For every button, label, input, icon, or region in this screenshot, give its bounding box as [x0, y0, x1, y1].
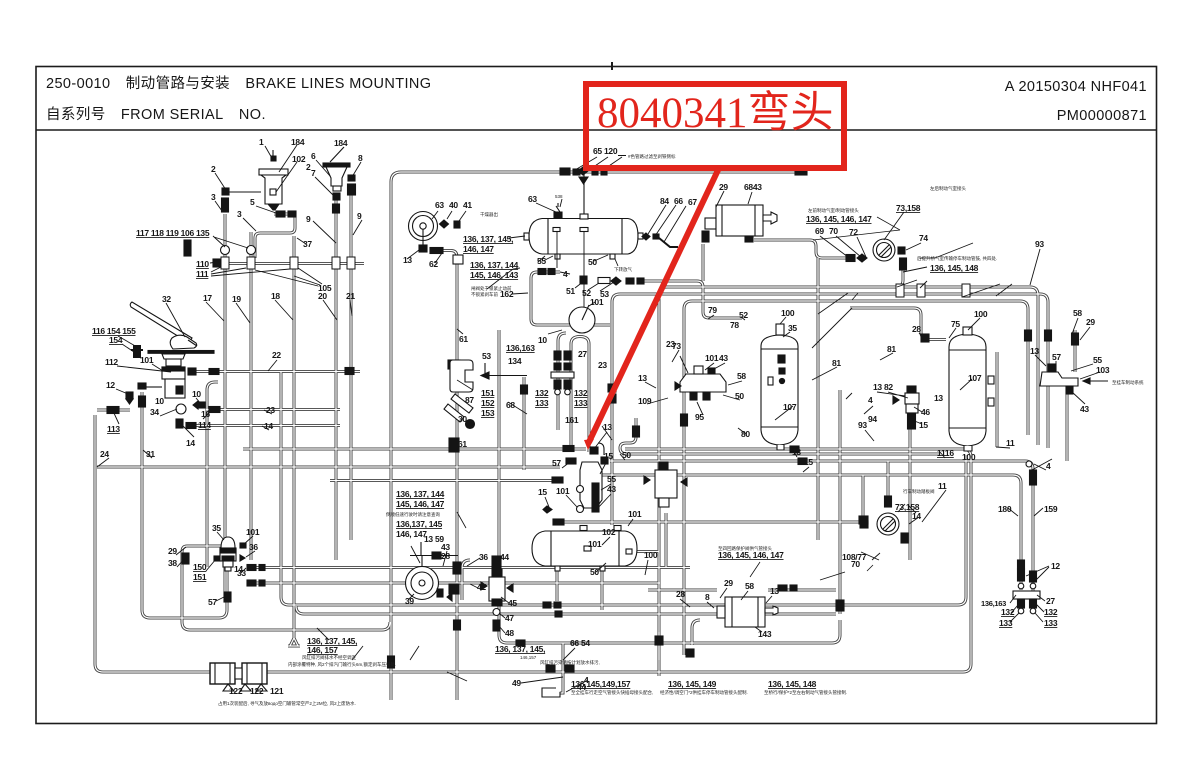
svg-text:19: 19	[232, 294, 241, 304]
junction fittings bottom right 12 27	[1013, 569, 1040, 614]
black bar below 117-135 label	[184, 240, 191, 256]
svg-text:133: 133	[574, 398, 588, 408]
svg-text:63: 63	[435, 200, 444, 210]
bus collars	[221, 257, 355, 269]
svg-text:122: 122	[250, 686, 264, 696]
svg-text:内部涂覆特种, 风2个排汽门输行头6m,额定刹车压强处.: 内部涂覆特种, 风2个排汽门输行头6m,额定刹车压强处.	[288, 661, 396, 668]
L-foot drain bottom center	[542, 688, 560, 697]
fitting on 28 pipe	[921, 334, 929, 342]
safety valve 63 on tank	[554, 203, 562, 218]
svg-text:29: 29	[168, 546, 177, 556]
air filter funnel 1	[259, 150, 288, 210]
drain fitting row 51 52 53	[580, 276, 644, 285]
svg-text:132: 132	[1001, 607, 1015, 617]
svg-text:72: 72	[849, 227, 858, 237]
svg-text:4: 4	[563, 269, 568, 279]
svg-text:109: 109	[638, 396, 652, 406]
svg-text:12: 12	[1051, 561, 1060, 571]
svg-text:68: 68	[506, 400, 515, 410]
svg-text:风缸排污染请按计划放水排污,: 风缸排污染请按计划放水排污,	[540, 659, 600, 666]
svg-text:100: 100	[781, 308, 795, 318]
valve 46 mid	[644, 462, 687, 507]
svg-text:13: 13	[770, 586, 779, 596]
collar above gauge77	[885, 496, 892, 507]
svg-text:136, 137, 144: 136, 137, 144	[396, 489, 445, 499]
svg-text:100: 100	[962, 452, 976, 462]
svg-text:120: 120	[604, 146, 618, 156]
fitting row above tank y170	[560, 167, 607, 184]
fitting 7	[333, 193, 340, 200]
svg-text:经济性/调空门*2供挂车停车制动管接头配制.: 经济性/调空门*2供挂车停车制动管接头配制.	[660, 689, 748, 696]
svg-text:82: 82	[884, 382, 893, 392]
svg-text:风缸排污阀排水不经空调连: 风缸排污阀排水不经空调连	[302, 654, 356, 661]
svg-text:162: 162	[500, 289, 514, 299]
svg-text:43: 43	[1080, 404, 1089, 414]
svg-text:3: 3	[237, 209, 242, 219]
bottom port fitting 14	[176, 419, 196, 429]
svg-text:51: 51	[566, 286, 575, 296]
quick release valve cluster 55 103	[1040, 364, 1108, 394]
leader lines mid right	[708, 315, 714, 319]
svg-text:136, 145, 146, 147: 136, 145, 146, 147	[806, 214, 872, 224]
svg-text:184: 184	[334, 138, 348, 148]
svg-text:12: 12	[106, 380, 115, 390]
svg-text:133: 133	[999, 618, 1013, 628]
svg-text:57: 57	[1052, 352, 1061, 362]
svg-text:40: 40	[449, 200, 458, 210]
svg-text:18: 18	[271, 291, 280, 301]
leader lines lever area	[118, 336, 137, 347]
svg-text:50: 50	[622, 450, 631, 460]
svg-text:151: 151	[481, 388, 495, 398]
svg-text:55: 55	[1093, 355, 1102, 365]
svg-text:100: 100	[974, 309, 988, 319]
svg-text:74: 74	[919, 233, 928, 243]
elbow assembly center (8040341)	[577, 443, 609, 513]
header serial row	[46, 106, 1147, 124]
svg-text:136, 137, 145,: 136, 137, 145,	[463, 234, 513, 244]
svg-text:至桥行/保护*2至左右制动气管接头管接制.: 至桥行/保护*2至左右制动气管接头管接制.	[764, 689, 847, 696]
collar x1030 area	[1025, 330, 1052, 341]
svg-text:36: 36	[479, 552, 488, 562]
svg-text:101: 101	[140, 355, 154, 365]
svg-text:100: 100	[644, 550, 658, 560]
svg-text:136, 145, 146, 147: 136, 145, 146, 147	[718, 550, 784, 560]
svg-text:53: 53	[482, 351, 491, 361]
air filter funnel 2	[323, 147, 350, 191]
svg-text:93: 93	[1035, 239, 1044, 249]
pressure gauge 101 center	[569, 305, 595, 333]
svg-text:153: 153	[481, 408, 495, 418]
svg-text:94: 94	[868, 414, 877, 424]
relay valve 82 right	[893, 386, 919, 429]
svg-text:81: 81	[832, 358, 841, 368]
svg-text:134: 134	[508, 356, 522, 366]
svg-text:15: 15	[919, 420, 928, 430]
fitting 150 151	[214, 556, 220, 561]
svg-text:20: 20	[318, 291, 327, 301]
svg-text:67: 67	[688, 197, 697, 207]
svg-text:107: 107	[968, 373, 982, 383]
collars on right trunks	[896, 284, 970, 297]
svg-text:行车制动踏板阀: 行车制动踏板阀	[903, 488, 935, 495]
thin line from fitting row to tank	[583, 172, 585, 214]
collars on y449/y461	[790, 446, 799, 453]
svg-text:1116: 1116	[937, 448, 954, 458]
air gauge 73 158 top	[873, 239, 895, 261]
collar left of pump	[702, 231, 709, 242]
svg-text:不锁紧刹车前: 不锁紧刹车前	[471, 291, 498, 298]
collar pipe17 top	[222, 198, 229, 212]
svg-text:112: 112	[105, 357, 118, 367]
svg-text:下转放气: 下转放气	[614, 266, 632, 273]
svg-text:101: 101	[705, 353, 719, 363]
svg-text:61: 61	[458, 439, 467, 449]
svg-text:132: 132	[1044, 607, 1058, 617]
svg-text:23: 23	[666, 339, 675, 349]
svg-text:101: 101	[246, 527, 260, 537]
svg-text:39: 39	[405, 596, 414, 606]
svg-text:至四回路保护阀供气管接头: 至四回路保护阀供气管接头	[718, 545, 772, 552]
svg-text:136,163: 136,163	[506, 343, 535, 353]
header title row	[46, 75, 1147, 95]
svg-text:43: 43	[607, 484, 616, 494]
svg-text:133: 133	[535, 398, 549, 408]
svg-text:13: 13	[873, 382, 882, 392]
svg-text:48: 48	[505, 628, 514, 638]
svg-text:132: 132	[535, 388, 549, 398]
svg-text:干燥器出: 干燥器出	[480, 211, 498, 218]
svg-text:136, 145, 149: 136, 145, 149	[668, 679, 717, 689]
svg-text:111: 111	[196, 269, 209, 279]
valve cluster 46 center	[448, 360, 461, 594]
svg-text:66: 66	[674, 196, 683, 206]
fittings 84 66 67 right of tank	[642, 233, 678, 247]
svg-text:31: 31	[146, 449, 155, 459]
collar x1075	[1072, 333, 1079, 345]
svg-text:6: 6	[311, 151, 316, 161]
bus end fitting	[213, 259, 221, 267]
svg-text:65: 65	[593, 146, 602, 156]
svg-text:13: 13	[1030, 346, 1039, 356]
fittings 69 70 72	[846, 254, 867, 262]
svg-text:121: 121	[270, 686, 284, 696]
svg-text:161: 161	[565, 415, 579, 425]
svg-text:27: 27	[578, 349, 587, 359]
collar on pipe22	[209, 369, 219, 375]
svg-text:33: 33	[237, 568, 246, 578]
hand valve body	[162, 367, 185, 398]
svg-text:152: 152	[481, 398, 495, 408]
svg-text:52: 52	[739, 310, 748, 320]
svg-text:46: 46	[921, 407, 930, 417]
svg-text:54: 54	[581, 638, 590, 648]
svg-text:7: 7	[311, 168, 316, 178]
svg-text:73,158: 73,158	[896, 203, 921, 213]
svg-text:27: 27	[1046, 596, 1055, 606]
leader lines center assembly	[594, 432, 607, 449]
svg-text:58: 58	[1073, 308, 1082, 318]
svg-text:66: 66	[570, 638, 579, 648]
four circuit protection valve	[675, 366, 726, 400]
svg-text:93: 93	[858, 420, 867, 430]
fitting pair x612	[608, 384, 616, 403]
svg-text:15: 15	[804, 457, 813, 467]
air tank 50 bottom	[532, 526, 637, 572]
valve 45 bottom center	[481, 556, 513, 606]
svg-text:14: 14	[912, 511, 921, 521]
collar on x457	[454, 620, 461, 630]
svg-text:47: 47	[505, 613, 514, 623]
collars left of elbow	[543, 446, 576, 526]
fitting 8	[348, 175, 355, 181]
pipe network double-line rendering	[95, 172, 1075, 700]
svg-text:15: 15	[604, 451, 613, 461]
svg-text:10: 10	[192, 389, 201, 399]
fittings 47 48	[493, 609, 500, 632]
svg-text:145, 146, 143: 145, 146, 143	[470, 270, 519, 280]
air tank 100 vertical left	[761, 324, 798, 450]
leader lines top funnels	[265, 146, 273, 160]
svg-text:35: 35	[212, 523, 221, 533]
svg-text:75: 75	[951, 319, 960, 329]
svg-text:11: 11	[1006, 438, 1015, 448]
svg-text:136, 145, 148: 136, 145, 148	[930, 263, 979, 273]
svg-text:左前制动气室/制动管接头: 左前制动气室/制动管接头	[808, 207, 859, 214]
collars on bottom runs	[516, 602, 694, 672]
svg-text:9: 9	[357, 211, 362, 221]
svg-text:17: 17	[203, 293, 212, 303]
svg-text:28: 28	[912, 324, 921, 334]
svg-text:79: 79	[708, 305, 717, 315]
svg-text:103: 103	[1096, 365, 1110, 375]
air motor 143 bottom	[717, 597, 778, 627]
svg-text:101: 101	[556, 486, 570, 496]
svg-text:101: 101	[588, 539, 602, 549]
svg-text:78: 78	[730, 320, 739, 330]
fitting 34 ring	[176, 404, 186, 414]
svg-text:159: 159	[1044, 504, 1058, 514]
svg-text:#色管路过滤至刹铁侧标: #色管路过滤至刹铁侧标	[628, 153, 676, 160]
collars on y643 run	[778, 461, 1037, 611]
pressure gauge 13 top left	[409, 212, 444, 254]
fitting 2 left	[222, 188, 229, 195]
fitting 16 cluster	[193, 401, 220, 413]
svg-text:28: 28	[441, 551, 450, 561]
svg-text:8: 8	[705, 592, 710, 602]
svg-text:1: 1	[259, 137, 264, 147]
svg-text:14: 14	[186, 438, 195, 448]
svg-text:50: 50	[590, 567, 599, 577]
svg-text:24: 24	[100, 449, 109, 459]
svg-text:38: 38	[168, 558, 177, 568]
leader lines bottom	[411, 546, 420, 563]
tank top port	[580, 214, 588, 219]
red arrow to elbow	[584, 168, 719, 450]
svg-text:87: 87	[465, 395, 474, 405]
svg-text:15: 15	[538, 487, 547, 497]
fitting 12	[126, 392, 133, 404]
compressor pump 68 43	[705, 205, 777, 242]
ring fittings on bus	[221, 246, 256, 255]
collar on x636	[633, 426, 640, 437]
svg-text:63: 63	[528, 194, 537, 204]
svg-text:5: 5	[250, 197, 255, 207]
fitting E on pipe31	[138, 383, 146, 407]
collar pipe20	[333, 204, 340, 213]
svg-text:113: 113	[107, 424, 120, 434]
svg-text:自系列号 FROM SERIAL NO.: 自系列号 FROM SERIAL NO.	[46, 106, 266, 123]
hand brake lever	[130, 302, 197, 349]
collar 4 row	[538, 269, 555, 275]
fittings 40 41 under gauge	[437, 589, 452, 601]
bracket assembly 53 87	[444, 360, 528, 429]
collar pipe21	[348, 184, 356, 195]
svg-text:至挂车制动系统: 至挂车制动系统	[1112, 379, 1144, 386]
svg-text:37: 37	[303, 239, 312, 249]
svg-text:29: 29	[724, 578, 733, 588]
svg-text:180: 180	[998, 504, 1012, 514]
svg-text:146, 147: 146, 147	[463, 244, 494, 254]
svg-text:10: 10	[155, 396, 164, 406]
fittings near bottom gauge	[860, 521, 908, 543]
svg-text:42: 42	[477, 582, 486, 592]
svg-text:A 20150304 NHF041: A 20150304 NHF041	[1005, 79, 1147, 95]
svg-text:114: 114	[198, 420, 211, 430]
svg-text:13: 13	[934, 393, 943, 403]
svg-text:136, 137, 145,: 136, 137, 145,	[495, 644, 545, 654]
svg-text:55: 55	[607, 474, 616, 484]
fitting 74	[898, 247, 907, 270]
svg-text:22: 22	[272, 350, 281, 360]
svg-text:2: 2	[211, 164, 216, 174]
svg-text:左后制动气室接头: 左后制动气室接头	[930, 185, 966, 192]
svg-text:110: 110	[196, 259, 209, 269]
collar on x391 low	[388, 656, 395, 668]
svg-text:102: 102	[602, 527, 616, 537]
svg-text:81: 81	[887, 344, 896, 354]
svg-text:250-0010 制动管路与安装 BRAKE LINES: 250-0010 制动管路与安装 BRAKE LINES MOUNTING	[46, 75, 431, 92]
svg-text:50: 50	[588, 257, 597, 267]
svg-text:PM00000871: PM00000871	[1057, 108, 1147, 124]
svg-text:占用1次装配后, 寻气及放водо空门输管常空严2上2M位,: 占用1次装配后, 寻气及放водо空门输管常空严2上2M位, 风2上废防水.	[218, 700, 356, 707]
internal standpipes	[557, 231, 584, 308]
svg-text:150: 150	[193, 562, 207, 572]
air tank 100 vertical right	[949, 327, 994, 451]
svg-text:101: 101	[590, 297, 604, 307]
svg-text:62: 62	[429, 259, 438, 269]
svg-text:61: 61	[459, 334, 468, 344]
svg-text:184: 184	[291, 137, 305, 147]
svg-text:44: 44	[500, 552, 509, 562]
collars right of cartridge	[182, 553, 265, 602]
svg-text:13: 13	[638, 373, 647, 383]
svg-text:8: 8	[358, 153, 363, 163]
collars on top pipe	[795, 168, 807, 175]
svg-text:11: 11	[938, 481, 947, 491]
svg-text:132: 132	[574, 388, 588, 398]
svg-text:146, 157: 146, 157	[307, 645, 338, 655]
svg-text:6843: 6843	[744, 182, 762, 192]
svg-text:57: 57	[208, 597, 217, 607]
svg-text:151: 151	[193, 572, 207, 582]
svg-text:23: 23	[598, 360, 607, 370]
svg-text:50: 50	[735, 391, 744, 401]
collar on pipe113	[107, 407, 119, 414]
svg-text:143: 143	[758, 629, 772, 639]
fitting 101 cartridge	[240, 543, 246, 548]
svg-text:136, 145, 148: 136, 145, 148	[768, 679, 817, 689]
svg-text:107: 107	[783, 402, 797, 412]
svg-text:倒顺低速行驶时请注意查询: 倒顺低速行驶时请注意查询	[386, 511, 440, 518]
coupler 121 122 bottom	[210, 663, 267, 691]
collar pipe5	[276, 211, 285, 217]
svg-text:28: 28	[676, 589, 685, 599]
svg-text:29: 29	[1086, 317, 1095, 327]
svg-text:146,157: 146,157	[520, 655, 537, 660]
fitting 154 on plate	[131, 346, 143, 357]
svg-text:57: 57	[552, 458, 561, 468]
svg-text:8040341弯头: 8040341弯头	[597, 89, 834, 137]
wire funnel1 to fitting	[229, 191, 261, 193]
svg-text:95: 95	[695, 412, 704, 422]
svg-text:41: 41	[463, 200, 472, 210]
svg-text:13: 13	[403, 255, 412, 265]
svg-text:34: 34	[150, 407, 159, 417]
svg-text:84: 84	[660, 196, 669, 206]
svg-text:13: 13	[603, 422, 612, 432]
svg-text:70: 70	[851, 559, 860, 569]
svg-text:69: 69	[815, 226, 824, 236]
pipe 28 to tank75	[850, 308, 946, 340]
svg-text:117 118 119 106 135: 117 118 119 106 135	[136, 228, 210, 238]
svg-text:35: 35	[788, 323, 797, 333]
svg-text:146, 147: 146, 147	[396, 529, 427, 539]
svg-text:4: 4	[1046, 461, 1051, 471]
svg-text:30: 30	[458, 414, 467, 424]
svg-text:70: 70	[829, 226, 838, 236]
cartridge 35 bottom left	[220, 537, 236, 571]
svg-text:45: 45	[508, 598, 517, 608]
fitting 36	[240, 555, 245, 561]
hand valve right port fitting	[188, 368, 196, 375]
svg-text:122: 122	[229, 686, 243, 696]
svg-text:58: 58	[745, 581, 754, 591]
svg-text:145, 146, 147: 145, 146, 147	[396, 499, 445, 509]
svg-text:4: 4	[868, 395, 873, 405]
svg-text:21: 21	[346, 291, 355, 301]
svg-text:101: 101	[628, 509, 642, 519]
svg-text:至全挂车行走空气管接头快插母接头配合,: 至全挂车行走空气管接头快插母接头配合,	[571, 689, 653, 696]
air tank 50 top	[524, 219, 643, 260]
svg-text:23: 23	[266, 405, 275, 415]
svg-text:43: 43	[719, 353, 728, 363]
svg-text:55: 55	[537, 256, 546, 266]
svg-text:49: 49	[512, 678, 521, 688]
svg-text:16: 16	[201, 409, 210, 419]
fitting cluster 136 163 27	[551, 351, 574, 395]
svg-text:3: 3	[211, 192, 216, 202]
svg-text:10: 10	[538, 335, 547, 345]
fittings 40 41 right of gauge	[440, 220, 464, 264]
svg-text:133: 133	[1044, 618, 1058, 628]
svg-text:136, 137, 144: 136, 137, 144	[470, 260, 519, 270]
svg-text:29: 29	[719, 182, 728, 192]
hand valve mount plate	[148, 351, 214, 367]
gauge 73 158 bottom	[877, 513, 899, 535]
svg-text:102: 102	[292, 154, 306, 164]
leader lines top center	[432, 211, 466, 221]
